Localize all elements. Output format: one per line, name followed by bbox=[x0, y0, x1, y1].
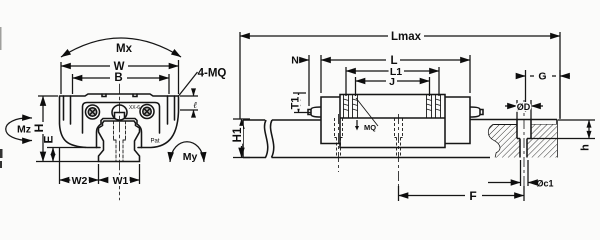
E dimension bbox=[47, 147, 86, 149]
carriage block bbox=[340, 95, 445, 148]
svg-text:N: N bbox=[291, 55, 299, 67]
svg-text:H: H bbox=[32, 124, 46, 133]
rail break lines bbox=[265, 120, 274, 158]
W dimension bbox=[61, 60, 179, 94]
rail mounting hole hidden lines bbox=[114, 121, 126, 162]
svg-text:Lmax: Lmax bbox=[391, 31, 422, 43]
Mz moment arrow bbox=[6, 118, 32, 141]
carriage side wing lines left bbox=[64, 96, 71, 124]
carriage top notches bbox=[102, 94, 137, 97]
hatched broken-out section bbox=[489, 125, 501, 158]
left end cap bbox=[321, 97, 340, 144]
counterbore hole bbox=[517, 120, 531, 158]
svg-text:Pat: Pat bbox=[150, 139, 159, 145]
svg-text:Øc1: Øc1 bbox=[536, 179, 553, 189]
screw M-left bbox=[86, 105, 100, 119]
hatch fill right of hole bbox=[527, 125, 557, 158]
H dimension bbox=[36, 96, 99, 162]
svg-text:T1: T1 bbox=[290, 97, 302, 110]
svg-text:XX-6: XX-6 bbox=[129, 105, 140, 111]
svg-text:ØD: ØD bbox=[517, 102, 531, 112]
svg-text:F: F bbox=[469, 189, 476, 203]
l dimension right bbox=[180, 96, 198, 110]
hatch fill left of hole bbox=[489, 125, 520, 158]
rail top through carriage bbox=[340, 117, 445, 119]
label MQ with down-arrow bbox=[355, 126, 359, 131]
rail left end + body bbox=[243, 120, 266, 158]
section break line bbox=[489, 125, 501, 158]
hole centerlines bbox=[339, 114, 399, 200]
svg-text:H1: H1 bbox=[232, 127, 244, 142]
scan marks left edge bbox=[0, 149, 3, 158]
4-MQ leader bbox=[179, 72, 198, 96]
dimensions right view bbox=[233, 32, 595, 201]
rail mounting holes hidden bbox=[335, 118, 343, 158]
end-seal inner rounded outline bbox=[83, 103, 160, 134]
L1 bbox=[346, 67, 439, 96]
MQ label arrow bbox=[356, 120, 358, 126]
W2 W1 dimensions bbox=[60, 147, 140, 184]
rail profile bbox=[99, 121, 140, 162]
grease nipple right bbox=[470, 107, 483, 117]
svg-text:h: h bbox=[580, 144, 592, 151]
svg-text:My: My bbox=[183, 151, 198, 163]
svg-text:W2: W2 bbox=[72, 175, 88, 187]
scan streak left edge top bbox=[0, 27, 2, 50]
H1 bbox=[233, 119, 250, 158]
rail top right of carriage bbox=[470, 119, 557, 121]
section top edges bbox=[494, 124, 558, 126]
G bbox=[526, 70, 561, 118]
rail right end bbox=[556, 120, 558, 158]
svg-text:ℓ: ℓ bbox=[193, 100, 197, 110]
svg-text:G: G bbox=[538, 71, 546, 83]
B dimension bbox=[73, 74, 170, 94]
N + L chained bbox=[309, 55, 470, 106]
right end cap bbox=[445, 97, 470, 144]
T1 bbox=[293, 93, 311, 113]
svg-text:W1: W1 bbox=[113, 175, 129, 187]
svg-text:4-MQ: 4-MQ bbox=[198, 68, 227, 80]
OD bbox=[517, 100, 531, 120]
Oc1 bbox=[521, 160, 529, 186]
grease nipple left bbox=[308, 107, 321, 117]
grease hole circle bbox=[112, 105, 127, 120]
svg-text:MQ: MQ bbox=[364, 123, 376, 132]
svg-text:B: B bbox=[114, 72, 122, 84]
screw M-right bbox=[140, 105, 154, 119]
carriage inner clearance contour around rail bbox=[97, 113, 142, 148]
MQ leader diagonal bbox=[356, 98, 378, 126]
carriage side wing lines right bbox=[168, 96, 175, 124]
MQ thread holes (top) bbox=[344, 95, 441, 119]
Mx moment arc bbox=[61, 38, 181, 57]
svg-text:J: J bbox=[389, 76, 395, 88]
J bbox=[356, 77, 430, 96]
rail top/bottom middle bbox=[272, 120, 491, 158]
F bbox=[399, 186, 525, 201]
svg-text:Mx: Mx bbox=[116, 43, 133, 55]
carriage body outline bbox=[60, 94, 179, 148]
centerline bbox=[119, 84, 121, 200]
Lmax bbox=[240, 32, 560, 119]
My moment arrow bbox=[170, 142, 204, 162]
svg-text:E: E bbox=[42, 135, 56, 143]
svg-text:Mz: Mz bbox=[17, 124, 31, 136]
h bbox=[531, 120, 595, 139]
